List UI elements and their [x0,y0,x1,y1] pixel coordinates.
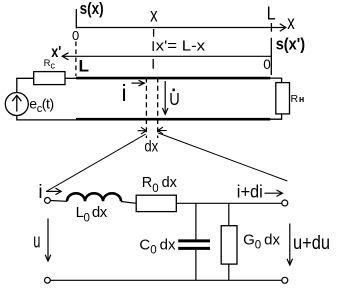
svg-text:x': x' [51,44,61,61]
svg-text:L: L [79,57,90,76]
resistor R0dx [136,195,176,211]
axis x arrowhead [280,24,286,31]
svg-text:0: 0 [263,57,271,72]
wire node to inductor [50,200,67,203]
svg-text:н: н [299,94,304,104]
transmission line bottom conductor [76,118,270,121]
svg-text:U: U [169,89,180,109]
arrow U (line voltage, down) [164,81,166,114]
dashed line at x=0 (left, between axes) [75,42,77,77]
wire line to RH (top) [270,78,282,83]
node bottom-left terminal [45,277,51,283]
svg-text:x: x [150,5,158,27]
wire R0dx to output node [176,202,281,204]
dashed section boundary left (x) [145,78,147,139]
svg-text:0: 0 [72,28,79,43]
axis x' horizontal line [62,55,271,57]
node input terminal [45,198,51,204]
capacitor C0dx plates [178,239,210,242]
svg-text:L: L [267,3,276,23]
axis x horizontal line [76,27,284,29]
axis s(x) vertical line [75,9,77,28]
svg-text:x'= L-x: x'= L-x [156,38,206,55]
tick x on axis [153,29,155,37]
svg-text:i: i [38,182,42,203]
source arrow (up) [16,97,18,112]
tick L on axis [270,23,272,32]
wire Rc to line [65,77,77,79]
arrow u (down) [47,219,49,261]
wire inductor to R0dx [121,202,136,204]
dx measure arrow left [138,130,146,132]
svg-text:R: R [291,93,299,105]
arrow i (line current) [132,82,144,84]
svg-text:u+du: u+du [293,233,330,254]
svg-text:u: u [33,231,40,253]
wire RH to line (bottom) [270,114,282,119]
zoom line right [158,133,287,181]
dashed line at position x (between axes) [152,41,154,76]
svg-text:x: x [287,13,295,34]
conductance G0dx box [221,226,237,264]
svg-text:s(x): s(x) [80,0,104,18]
inductor L0dx [67,193,121,201]
conductance branch upper wire [228,203,230,225]
arrow i+di [265,192,282,194]
svg-text:s(x'): s(x') [276,34,305,53]
wire source bottom to line [17,116,77,120]
arrow i (section input) [46,190,61,192]
bottom return wire [50,279,281,281]
resistor RH [276,83,290,114]
transmission line top conductor [76,77,270,80]
dx measure arrow right [158,130,167,132]
axis x' arrowhead (points left) [62,53,68,60]
svg-text:i+di: i+di [237,181,263,201]
svg-text:i: i [122,80,127,106]
node bottom-right terminal [282,277,288,283]
source e_c(t) circle [5,93,28,116]
arrow u+du (down) [289,224,291,265]
conductance branch lower wire [228,264,230,280]
node output terminal [282,200,288,206]
axis s(x') vertical line [270,38,272,75]
resistor Rc [34,72,65,85]
svg-text:Rc: Rc [44,58,56,71]
zoom line left [47,134,146,191]
capacitor branch upper wire [195,203,197,239]
wire source to Rc [17,78,34,92]
svg-text:dx: dx [144,138,158,155]
dashed section boundary right (x+dx) [157,78,159,139]
capacitor branch lower wire [195,250,197,280]
